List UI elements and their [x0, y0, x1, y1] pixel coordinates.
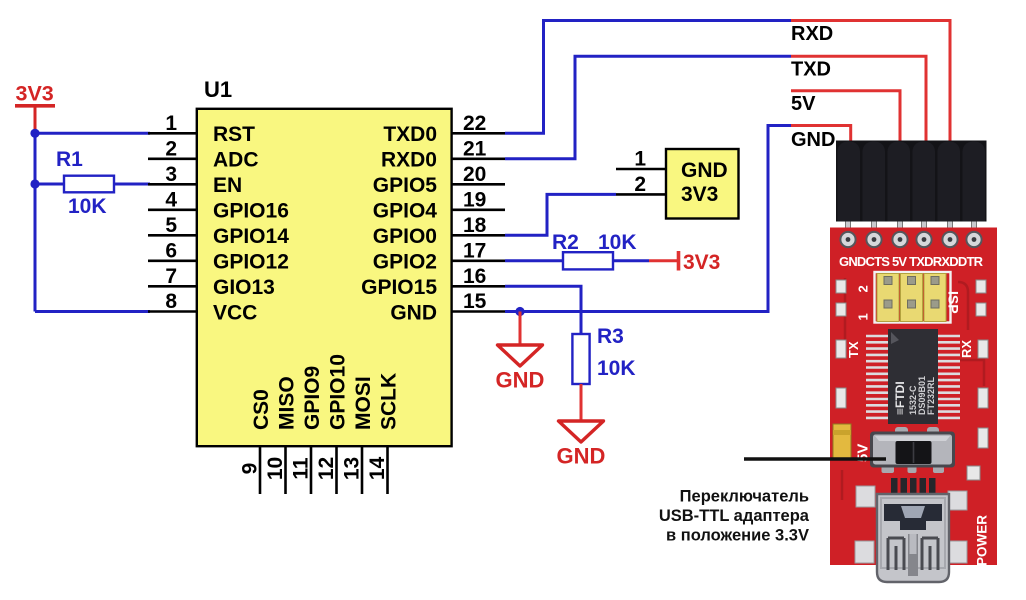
svg-text:GND: GND: [557, 444, 606, 469]
svg-text:GND: GND: [496, 368, 545, 393]
svg-text:MOSI: MOSI: [352, 376, 375, 430]
svg-text:2: 2: [634, 173, 646, 196]
adapter solder ring pads: [840, 232, 981, 247]
pin 9 stub: [259, 446, 262, 495]
adapter switch body: [870, 427, 955, 473]
wire rail to R1: [35, 183, 64, 186]
svg-text:GPIO10: GPIO10: [327, 354, 350, 430]
svg-text:16: 16: [463, 265, 486, 288]
svg-text:10: 10: [264, 457, 287, 480]
wire rail to pin8 VCC: [35, 310, 150, 313]
svg-text:R2: R2: [552, 231, 579, 254]
svg-text:RXD0: RXD0: [381, 149, 437, 172]
power symbol 3V3 (at R2): [649, 259, 678, 262]
wire GPIO0 (pin18) to connector pin2: [505, 194, 616, 235]
svg-text:RST: RST: [213, 123, 255, 146]
svg-text:GPIO2: GPIO2: [373, 251, 437, 274]
svg-text:21: 21: [463, 138, 487, 161]
wire RXD0 (pin21) to TXD label: [505, 56, 791, 159]
pin 15 stub: [451, 310, 505, 313]
svg-text:CS0: CS0: [250, 389, 273, 430]
wire TXD red segment to adapter: [791, 56, 926, 142]
pin 18 stub: [451, 234, 505, 237]
pin 12 stub: [335, 446, 338, 495]
svg-text:GPIO16: GPIO16: [213, 200, 289, 223]
svg-text:1: 1: [165, 112, 177, 135]
svg-text:12: 12: [315, 457, 338, 480]
adapter header pin stubs: [846, 220, 977, 234]
pin 21 stub: [451, 158, 505, 161]
pin 2 stub: [148, 158, 197, 161]
svg-text:20: 20: [463, 163, 486, 186]
pin 1 stub: [148, 132, 197, 135]
resistor R1: [64, 176, 114, 193]
power symbol 3V3 (top left): [15, 82, 55, 134]
svg-text:GPIO12: GPIO12: [213, 251, 289, 274]
pin 6 stub: [148, 259, 197, 262]
svg-text:18: 18: [463, 214, 487, 237]
svg-text:GND: GND: [791, 129, 835, 151]
svg-text:1: 1: [634, 148, 646, 171]
wire GND red segment to adapter: [791, 126, 851, 143]
adapter FTDI chip pins: [866, 336, 960, 418]
pin 10 stub: [284, 446, 287, 495]
svg-text:3: 3: [165, 163, 177, 186]
pin 20 stub: [451, 183, 505, 186]
adapter header black housing: [836, 141, 987, 222]
svg-text:10K: 10K: [68, 195, 107, 218]
svg-text:GPIO15: GPIO15: [361, 276, 437, 299]
wire junction to ground symbol: [519, 312, 522, 346]
pin 4 stub: [148, 209, 197, 212]
svg-text:TXD: TXD: [791, 59, 831, 81]
annotation text (Russian): [659, 488, 810, 545]
svg-text:ISP: ISP: [946, 291, 962, 314]
svg-text:GPIO4: GPIO4: [373, 200, 438, 223]
pin 13 stub: [361, 446, 364, 495]
svg-text:17: 17: [463, 240, 486, 263]
resistor R2: [563, 252, 613, 269]
svg-text:FT232RL: FT232RL: [926, 376, 936, 415]
junction node at 3V3/pin1: [30, 129, 39, 138]
svg-text:GIO13: GIO13: [213, 276, 275, 299]
svg-text:POWER: POWER: [975, 515, 990, 566]
pin 7 stub: [148, 285, 197, 288]
adapter mini-USB connector: [877, 494, 949, 582]
wire R3 to ground symbol: [580, 384, 583, 421]
svg-text:ADC: ADC: [213, 149, 259, 172]
svg-text:3V3: 3V3: [683, 251, 720, 274]
adapter yellow capacitor: [833, 424, 851, 458]
svg-text:TXD0: TXD0: [383, 123, 437, 146]
svg-text:GND: GND: [681, 159, 728, 182]
ground symbol (below R3): [559, 421, 604, 442]
svg-text:GNDCTS 5V TXDRXDDTR: GNDCTS 5V TXDRXDDTR: [839, 254, 984, 269]
wire TXD0 (pin22) to RXD label: [505, 21, 791, 134]
svg-text:GPIO5: GPIO5: [373, 174, 438, 197]
svg-text:15: 15: [463, 290, 487, 313]
svg-text:GPIO0: GPIO0: [373, 225, 437, 248]
svg-text:2: 2: [165, 138, 177, 161]
svg-text:GPIO14: GPIO14: [213, 225, 289, 248]
connector pin 1 stub: [616, 168, 666, 171]
svg-text:TX: TX: [846, 341, 861, 358]
pointer line to switch: [744, 457, 886, 460]
resistor R3 (vertical): [572, 334, 589, 384]
svg-text:5: 5: [165, 214, 177, 237]
svg-text:EN: EN: [213, 174, 242, 197]
pin 11 stub: [310, 446, 313, 495]
USB-TTL adapter photo: [830, 141, 997, 583]
adapter switch knob: [896, 441, 932, 464]
IC U1 body: [197, 109, 452, 446]
pin 17 stub: [451, 259, 505, 262]
pin 22 stub: [451, 132, 505, 135]
ground symbol (near pin15): [498, 345, 543, 366]
pin 5 stub: [148, 234, 197, 237]
svg-text:14: 14: [366, 457, 389, 481]
connector pin 2 stub: [616, 193, 666, 196]
wire 3V3 to pin1 RST: [35, 132, 150, 135]
svg-text:R3: R3: [597, 325, 624, 348]
svg-text:в положение 3.3V: в положение 3.3V: [666, 527, 809, 545]
adapter usb solder pads: [855, 486, 967, 563]
adapter ISP yellow connector: [877, 274, 946, 322]
svg-text:6: 6: [165, 240, 177, 263]
junction node at R1: [30, 179, 39, 188]
pin 16 stub: [451, 285, 505, 288]
svg-text:10K: 10K: [598, 231, 637, 254]
wire R2 to 3V3 blue segment: [613, 259, 649, 262]
adapter mini-USB pins: [891, 478, 936, 496]
svg-text:22: 22: [463, 112, 486, 135]
svg-text:U1: U1: [204, 77, 232, 102]
pin 3 stub: [148, 183, 197, 186]
svg-text:GND: GND: [390, 302, 437, 325]
svg-text:9: 9: [239, 463, 262, 475]
wire GPIO2 (pin17) to R2: [505, 259, 563, 262]
adapter FTDI chip body: [888, 329, 938, 424]
wire R1 to pin3 EN: [114, 183, 150, 186]
wire 3V3 rail vertical: [34, 133, 37, 311]
svg-text:1: 1: [856, 313, 871, 320]
svg-text:13: 13: [341, 457, 364, 480]
wire GND net blue segment: [505, 126, 791, 312]
pin 14 stub: [386, 446, 389, 495]
svg-text:2: 2: [856, 285, 871, 292]
adapter PCB traces: [842, 272, 984, 500]
adapter ISP header outline: [875, 272, 951, 323]
junction node GND/pin15: [515, 307, 524, 316]
adapter PCB board: [830, 228, 997, 566]
svg-text:7: 7: [165, 265, 177, 288]
svg-text:GPIO9: GPIO9: [301, 366, 324, 430]
svg-text:3V3: 3V3: [16, 82, 54, 106]
svg-text:10K: 10K: [597, 357, 636, 380]
connector GND/3V3 box: [666, 149, 739, 219]
svg-text:≡FTDI: ≡FTDI: [893, 381, 907, 415]
svg-text:4: 4: [165, 189, 177, 212]
svg-text:5V: 5V: [791, 93, 816, 115]
svg-text:USB-TTL адаптера: USB-TTL адаптера: [659, 507, 810, 525]
svg-text:8: 8: [165, 290, 177, 313]
svg-text:RX: RX: [959, 340, 974, 358]
right pin stubs: [451, 133, 505, 311]
svg-text:SCLK: SCLK: [378, 373, 401, 430]
pin 8 stub: [148, 310, 197, 313]
svg-text:MISO: MISO: [276, 376, 299, 430]
svg-text:19: 19: [463, 189, 486, 212]
svg-text:RXD: RXD: [791, 23, 833, 45]
wire GPIO15 (pin16) to R3: [505, 286, 581, 334]
wire 5V red segment to adapter: [791, 91, 900, 142]
left pin stubs and numbers: [148, 133, 197, 311]
bottom pin stubs: [260, 446, 388, 495]
svg-text:VCC: VCC: [213, 302, 257, 325]
svg-text:Переключатель: Переключатель: [680, 488, 809, 506]
adapter SMD components: [836, 280, 988, 480]
wire RXD red segment to adapter: [791, 21, 950, 143]
svg-text:11: 11: [290, 457, 313, 480]
svg-text:R1: R1: [56, 148, 83, 171]
svg-text:3V3: 3V3: [681, 183, 718, 206]
pin 19 stub: [451, 209, 505, 212]
